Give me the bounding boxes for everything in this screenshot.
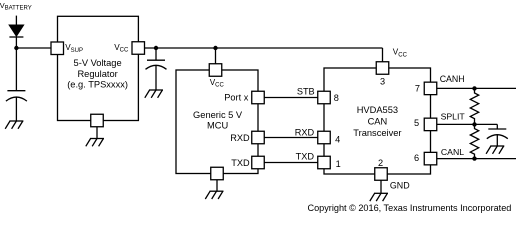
node junction dot SPLIT [472,122,476,126]
svg-text:MCU: MCU [207,120,228,130]
pin 7 of U3 (CANH) [424,82,437,95]
pin number 2 [378,158,383,168]
pin VCC label of U3 [393,48,408,59]
svg-text:CAN: CAN [368,117,388,127]
wire STB net [264,97,318,99]
wire MCU GND to ground [216,180,218,191]
pin VSUP label [65,43,83,54]
pin VCC label of MCU [210,78,225,89]
pin Port x label [224,92,248,102]
pin 2 of U3 (GND) [375,168,388,181]
pin GND of MCU [211,167,224,180]
svg-text:GND: GND [390,180,410,190]
wire C1 to ground [15,97,17,121]
pin 6 of U3 (CANL) [424,152,437,165]
wire CANH net [437,87,516,89]
svg-text:2: 2 [378,158,383,168]
svg-text:CANH: CANH [440,74,465,84]
pin number 5 [414,118,419,128]
net label STB [297,86,315,96]
svg-text:CANL: CANL [441,147,464,157]
pin number 8 [334,93,339,103]
node junction dot C3 [154,46,158,50]
svg-text:3: 3 [380,77,385,87]
wire rail down to transceiver VCC pin [382,48,384,62]
pin Port x of MCU [252,91,265,104]
regulator U1 box [58,16,139,120]
wire C4 to ground [496,135,498,147]
node junction dot MCU VCC [213,46,217,50]
wire junction to VSUP pin [16,47,51,49]
svg-text:8: 8 [334,93,339,103]
node VBATTERY label [0,1,32,12]
net label RXD [295,128,315,138]
MCU U2 text [193,110,243,130]
wire diode to capacitor C1 [15,37,17,91]
pin number 4 [335,134,340,144]
pin 3 of U3 (VCC) [376,62,389,75]
pin VCC label of U1 [114,43,129,54]
svg-text:Regulator: Regulator [77,69,117,79]
copyright note [308,203,512,213]
pin number 3 [380,77,385,87]
MCU U2 box [176,70,258,174]
svg-text:VBATTERY: VBATTERY [0,1,32,12]
pin 8 of U3 [318,91,331,104]
svg-text:4: 4 [335,134,340,144]
pin VCC of U1 [132,42,145,55]
svg-text:RXD: RXD [230,133,250,143]
pin VSUP of U1 [51,42,64,55]
wire junction to MCU VCC pin [215,48,217,64]
net label TXD [296,151,315,161]
node junction dot CANH [472,86,476,90]
capacitor C3 [146,60,167,69]
node junction dot CANL [472,156,476,160]
wire SPLIT to capacitor C4 [496,124,498,129]
pin number 6 [414,153,419,163]
pin GND of U1 [91,114,104,127]
ground G5 [370,193,388,201]
wire CANL net [437,158,516,160]
resistor R1 [470,88,478,124]
ground G6 [486,146,504,154]
svg-text:Transceiver: Transceiver [353,128,401,138]
svg-text:(e.g. TPSxxxx): (e.g. TPSxxxx) [67,80,128,90]
wire TXD net [264,162,318,164]
transceiver U3 box [324,68,431,174]
ground G3 [145,90,163,98]
svg-text:SPLIT: SPLIT [441,111,466,121]
ground G1 [5,121,23,129]
svg-text:5: 5 [414,118,419,128]
pin number 1 [336,159,341,169]
svg-text:6: 6 [414,153,419,163]
net label SPLIT [441,111,466,121]
svg-text:5-V Voltage: 5-V Voltage [74,58,122,68]
pin VCC of MCU [209,64,222,77]
pin 1 of U3 [318,156,331,169]
pin TXD of MCU [252,156,265,169]
pin 5 of U3 (SPLIT) [424,118,437,130]
pin RXD label of MCU [230,133,250,143]
wire C3 to ground [155,66,157,90]
ground G4 [205,191,223,199]
pin RXD of MCU [252,131,265,144]
svg-text:STB: STB [297,86,315,96]
capacitor C1 [6,91,27,101]
resistor R2 [470,124,478,158]
svg-text:7: 7 [415,84,420,94]
wire U3 GND to ground [380,180,382,193]
svg-text:Copyright © 2016, Texas Instru: Copyright © 2016, Texas Instruments Inco… [308,203,512,213]
svg-text:Generic 5 V: Generic 5 V [193,110,243,120]
svg-text:TXD: TXD [296,151,315,161]
svg-text:VCC: VCC [393,48,408,59]
svg-text:Port x: Port x [224,92,248,102]
wire VBATTERY to diode [15,16,17,26]
pin number 7 [415,84,420,94]
ground G2 [86,139,104,147]
net label CANH [440,74,465,84]
svg-text:TXD: TXD [231,158,250,168]
diode D1 [9,25,23,37]
capacitor C4 [487,129,508,139]
wire U1 GND to ground [96,127,98,139]
net label CANL [441,147,464,157]
svg-text:1: 1 [336,159,341,169]
regulator U1 text [67,58,128,90]
svg-text:HVDA553: HVDA553 [357,105,398,115]
wire VCC rail [145,47,383,49]
wire SPLIT net [437,123,498,125]
wire RXD net [264,137,318,139]
pin 4 of U3 [318,131,331,144]
wire junction to C3 [155,48,157,60]
transceiver U3 text [353,105,401,138]
pin TXD label of MCU [231,158,250,168]
svg-text:RXD: RXD [295,128,315,138]
net label GND [390,180,410,190]
node junction dot VSUP [14,46,18,50]
